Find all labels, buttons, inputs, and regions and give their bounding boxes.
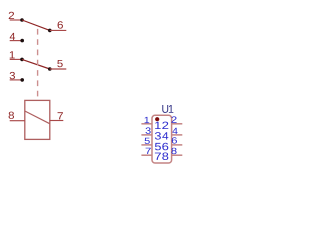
IC U1 pin 2 number: [171, 116, 176, 122]
IC U1 pin 1 stub: [141, 123, 152, 125]
relay actuation dashed link wire: [37, 29, 39, 101]
relay coil pin 7 name label: [58, 112, 63, 119]
IC U1 pin name row 78: [155, 153, 161, 160]
IC U1 pin 6 number: [172, 137, 177, 143]
relay switch B pin 3 wire: [10, 79, 23, 81]
relay switch A common junction dot: [20, 18, 24, 22]
IC U1 reference designator U: [162, 105, 168, 113]
IC U1 pin name row 34: [155, 132, 161, 140]
IC U1 pin 2 stub: [172, 123, 183, 125]
IC U1 pin 8 number: [171, 148, 176, 154]
relay switch B pin 3 name label: [10, 72, 15, 79]
relay switch B pin 5 name label: [57, 60, 62, 67]
relay coil box: [25, 100, 50, 139]
relay switch B common junction dot: [20, 58, 24, 62]
relay switch A pin 2 name label: [9, 12, 14, 19]
relay coil pin 7 wire: [50, 120, 64, 122]
IC U1 pin 8 stub: [172, 154, 183, 156]
IC U1 pin 4 stub: [172, 134, 183, 136]
relay switch B pin 1 wire: [10, 58, 22, 60]
IC U1 reference designator 1: [169, 105, 173, 113]
relay coil pin 8 wire: [10, 120, 25, 122]
IC U1 pin 3 number: [145, 127, 150, 133]
IC U1 pin 5 stub: [141, 144, 152, 146]
IC U1 package body: [152, 115, 172, 163]
relay switch A pin 4 name label: [10, 33, 15, 40]
IC U1 pin name row 12: [155, 122, 161, 129]
relay switch A pin 6 wire: [50, 29, 67, 31]
relay switch B pin 3 contact dot: [20, 78, 24, 82]
relay switch B pin 5 wire: [50, 68, 67, 70]
relay switch B pin 1 name label: [10, 51, 15, 58]
IC U1 pin 6 stub: [172, 144, 183, 146]
IC U1 pin 1 number: [145, 117, 150, 123]
relay switch A pin 4 contact dot: [20, 39, 24, 43]
IC U1 pin 1 marker dot: [155, 117, 159, 121]
relay switch B movable arm: [22, 59, 50, 69]
relay switch A contact junction dot: [48, 29, 52, 33]
relay switch B contact junction dot: [48, 67, 52, 71]
relay switch A pin 6 name label: [58, 21, 63, 28]
relay coil diagonal stroke: [25, 111, 50, 124]
IC U1 pin 4 number: [172, 128, 177, 134]
IC U1 pin 5 number: [145, 138, 150, 144]
IC U1 pin name row 56: [155, 143, 161, 150]
relay switch A pin 4 wire: [10, 40, 23, 42]
relay switch A movable arm: [22, 20, 50, 30]
IC U1 pin 7 number: [146, 148, 151, 154]
IC U1 pin 3 stub: [141, 134, 152, 136]
relay switch A pin 2 wire: [10, 19, 22, 21]
IC U1 pin 7 stub: [141, 154, 152, 156]
relay coil pin 8 name label: [9, 112, 14, 119]
